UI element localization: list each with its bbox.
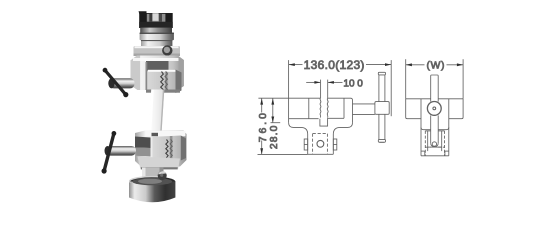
wavy specimen in body	[319, 98, 322, 117]
lower jaw block	[153, 136, 187, 162]
bottom notches	[421, 150, 425, 152]
lower body under-plate	[138, 157, 181, 170]
pin ears	[304, 139, 308, 150]
dim line 76.0	[261, 98, 263, 112]
clevis bottom	[308, 153, 334, 155]
body	[406, 98, 431, 100]
screw shaft	[353, 103, 375, 105]
svg-text:(W): (W)	[426, 61, 445, 72]
pin knob	[158, 171, 167, 180]
upper T-bar	[105, 71, 125, 95]
handle bar	[379, 73, 385, 143]
top coupler socket	[139, 13, 173, 28]
knob on top plate	[162, 45, 172, 55]
specimen above body	[320, 80, 322, 99]
screw circle	[427, 102, 441, 116]
clamp top plate	[134, 46, 181, 56]
coupler lower collar	[140, 28, 172, 33]
specimen bar	[149, 90, 165, 138]
(W) dim	[405, 59, 407, 99]
svg-text:136.0(123): 136.0(123)	[304, 58, 365, 72]
svg-text:28.0: 28.0	[269, 124, 280, 149]
shoulder	[421, 127, 431, 129]
dim line 28.0	[272, 98, 274, 122]
specimen tab below	[320, 118, 328, 126]
top coupler lever tab	[139, 11, 147, 17]
slot inner walls	[427, 131, 429, 151]
base cylinder	[129, 182, 175, 203]
dashed slot	[313, 134, 328, 154]
specimen bar	[431, 75, 439, 102]
pin hole	[317, 140, 324, 147]
slot shadow under bridge	[146, 61, 169, 71]
clamp body	[135, 131, 187, 167]
bottom extension line	[258, 153, 308, 155]
svg-text:10 0: 10 0	[343, 78, 363, 89]
boss	[375, 102, 389, 115]
lower outer profile left	[289, 123, 308, 155]
upper jaw block	[148, 70, 182, 94]
lower outer profile right	[333, 123, 352, 155]
shadow under upper clamp	[146, 90, 180, 93]
body outline	[288, 98, 290, 122]
lower T-bar	[104, 134, 114, 171]
flange ring 2	[141, 40, 172, 46]
svg-text:76.0: 76.0	[258, 110, 269, 142]
base top ellipse	[129, 177, 175, 187]
dim 10.0	[306, 81, 320, 83]
neck	[142, 168, 164, 179]
column verticals	[420, 99, 422, 156]
upper screw	[110, 78, 135, 88]
slot inner top	[425, 130, 430, 132]
lower screw	[106, 146, 137, 156]
dim 136.0(123)	[288, 60, 290, 98]
flange disc	[140, 33, 174, 41]
top extension line / body top	[258, 97, 320, 99]
upper clamp C-frame	[131, 56, 184, 91]
inner verticals + bottom shelf	[308, 98, 310, 119]
